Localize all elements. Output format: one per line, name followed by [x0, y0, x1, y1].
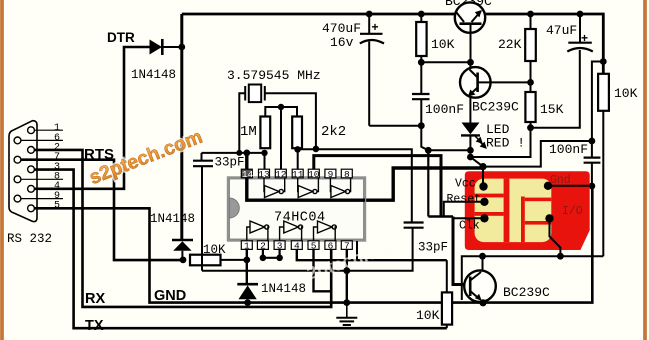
svg-text:14: 14: [242, 169, 254, 180]
DB9 pin 2: [28, 147, 35, 154]
wire: Vc vertical from 150 node: [427, 150, 429, 216]
wire: 2k2 bottom node to clock line y149: [297, 148, 412, 222]
resistor 15K vertical: [525, 92, 535, 122]
wire: IC pin5 jumper to pin6 column: [314, 249, 332, 291]
pin 9 stub: [21, 198, 63, 200]
resistor 10K vertical (Q1 base pullup): [416, 22, 426, 56]
wire: pin7 down to ground: [346, 249, 348, 302]
node dot: 10K bottom: [418, 59, 425, 66]
pin 8 stub: [21, 178, 63, 180]
svg-text:33pF: 33pF: [215, 156, 245, 170]
svg-text:RS 232: RS 232: [7, 232, 52, 246]
wire: rail branch to 100nF right column: [592, 62, 603, 142]
inverter gate 11-10: [298, 178, 319, 198]
svg-text:1N4148: 1N4148: [150, 212, 195, 226]
svg-text:10K: 10K: [416, 308, 440, 323]
node: D3-GND dot: [244, 299, 251, 306]
svg-text:47uF: 47uF: [546, 23, 577, 38]
node dots on card-bottom line: [479, 253, 486, 260]
svg-text:Reset: Reset: [447, 193, 482, 206]
DB9 connector shell: [9, 121, 37, 222]
svg-text:I/O: I/O: [562, 205, 583, 218]
DB9 pin 4: [28, 185, 35, 192]
node dots on y153: [236, 150, 242, 156]
wire: 100nF node down to 150 node: [421, 126, 428, 151]
svg-text:Gnd: Gnd: [550, 174, 571, 187]
wire: diagonal dot2 to dot3: [470, 157, 483, 167]
node: pin1 junction dot: [243, 257, 250, 264]
node: pin7 on y270 dot: [343, 267, 350, 274]
DB9 pin 7: [14, 156, 21, 163]
inverter gate 5-6: [314, 221, 337, 241]
svg-text:DTR: DTR: [107, 30, 135, 45]
capacitor 33pF (left): [201, 153, 203, 160]
resistor 1M vertical: [260, 117, 270, 149]
SIM card body: [465, 171, 590, 250]
svg-text:2k2: 2k2: [321, 124, 346, 140]
svg-text:5: 5: [54, 201, 60, 212]
wire: 10K bottom to Q1 base node: [421, 61, 470, 63]
wire: thick V+ vertical x=182: [180, 14, 183, 240]
IC notch: [229, 198, 239, 218]
wire: Ve thick vertical down to Q3 base: [453, 217, 470, 285]
diode D1 1N4148 (DTR): [150, 40, 163, 55]
wire: Reset contact wire: [444, 202, 485, 217]
svg-text:100nF: 100nF: [425, 102, 464, 117]
wire: crystal right down to 2k2 bottom node: [265, 93, 316, 149]
svg-text:Clk: Clk: [459, 220, 480, 233]
node: pin7 GND dot: [343, 299, 350, 306]
IC U1 74HC04 body: [228, 178, 365, 241]
SIM contact plate: [475, 179, 552, 243]
capacitor 33pF (right): [404, 221, 424, 223]
svg-text:RED !: RED !: [486, 136, 525, 151]
node dot: Q3 emitter on GND: [479, 299, 486, 306]
node dots LED bottom: [467, 147, 474, 154]
wire: ground net y270 to 33pF right cap: [202, 228, 413, 271]
bottom pin boxes 1..7: [241, 240, 352, 251]
resistor 22K vertical: [525, 29, 536, 61]
ground symbol: [346, 303, 348, 318]
top V+ rail: [182, 14, 604, 74]
svg-text:22K: 22K: [498, 37, 522, 52]
wire: 141 node left to Vcc riser: [483, 141, 592, 167]
wire: DB9 pin3 TX down to TX line to 10K bottom: [34, 170, 446, 329]
resistor 2k2 vertical: [292, 117, 302, 149]
wire: y216 jumper: [428, 215, 453, 217]
wire: thick pin14 net from osc node through IC to right: [247, 153, 483, 200]
wire: pin4 to y260 line to 10K top: [297, 249, 447, 260]
LED arrows: [474, 135, 486, 148]
svg-text:1N4148: 1N4148: [131, 68, 176, 82]
wire: pin10 clock line thick to SIM side: [314, 156, 441, 217]
svg-text:GND: GND: [154, 288, 186, 304]
svg-text:8: 8: [344, 169, 350, 180]
inverter gate 9-8: [330, 178, 350, 198]
wire: DB9 pin2 RX down to RX line to IC pin6: [34, 150, 331, 307]
svg-text:3.579545 MHz: 3.579545 MHz: [227, 68, 321, 83]
node dot: 470uF on rail: [366, 11, 373, 18]
DB9 pin 9: [14, 195, 21, 202]
wire: Clk contact wire: [453, 217, 484, 219]
svg-text:10K: 10K: [431, 37, 455, 52]
wire: DB9 pin7 RTS down and right to 10K: [21, 160, 183, 260]
DB9 pin 6: [14, 137, 21, 144]
wire: 470uF minus to 100nF node: [369, 125, 421, 127]
capacitor 100nF (left): [420, 62, 422, 93]
svg-text:Vcc: Vcc: [455, 178, 476, 191]
node: DTR/V+ junction dot: [178, 44, 185, 51]
wire: IC pin1 down through dot to diode D3: [246, 249, 248, 284]
node dot: Gnd contact line: [589, 183, 596, 190]
svg-text:TX: TX: [85, 318, 104, 334]
svg-text:100nF: 100nF: [549, 142, 588, 157]
diode D3 1N4148 (pin1 to GND): [237, 283, 258, 286]
svg-text:6: 6: [328, 240, 334, 251]
svg-text:5: 5: [311, 240, 317, 251]
node dot: 15K bottom: [527, 124, 534, 131]
wire: crystal left to osc node: [239, 93, 245, 153]
pin 1 stub: [34, 129, 63, 131]
resistor 10K horizontal (RTS to pin1): [190, 255, 221, 266]
svg-text:33pF: 33pF: [418, 241, 448, 255]
wire: pin11 up to clock node: [297, 149, 299, 169]
top pin boxes 14,13,12,11,10,9,8: [241, 169, 352, 180]
inverter gate 3-4: [280, 221, 303, 241]
wire: 150 node right to LED node: [428, 149, 470, 151]
watermark s2ptech.com (center, faint white): [295, 234, 406, 287]
wire: Gnd contact wire: [548, 185, 592, 187]
inverter gate 1-2: [247, 221, 269, 241]
LED D4: [462, 123, 480, 135]
wire: DB9 pin4 DTR up to diode D1: [34, 47, 149, 189]
diode D2 1N4148 (on V+ column) cathode bar: [172, 239, 193, 242]
resistor 10K vertical (TX base): [442, 292, 452, 324]
DB9 pin 3: [28, 166, 35, 173]
wire: I/O contact wire: [550, 218, 561, 256]
transistor Q3 BC239C (bottom): [482, 256, 484, 270]
wire: Vcc contact riser: [482, 167, 484, 187]
DB9 pin 8: [14, 176, 21, 183]
svg-text:BC239C: BC239C: [472, 100, 519, 115]
pin number labels 1,6,2,7,3,8,4,9,5: [54, 123, 60, 212]
svg-text:10K: 10K: [614, 86, 638, 101]
wire: DB9 pin5 to GND line: [34, 186, 592, 303]
node dot3: Vcc junction: [479, 163, 486, 170]
wire: card-bottom line: [462, 256, 604, 300]
wire: pins 2-3 jumper: [263, 249, 280, 257]
transistor Q2 BC239C (middle): [460, 67, 491, 98]
wire: 1M bottom to pin13: [264, 153, 266, 170]
svg-text:15K: 15K: [540, 102, 564, 117]
right orange page border: [643, 0, 647, 340]
svg-text:1M: 1M: [240, 124, 257, 140]
svg-text:+: +: [372, 20, 379, 34]
svg-text:RX: RX: [85, 291, 105, 307]
svg-text:10K: 10K: [203, 243, 226, 257]
pin 6 stub: [21, 139, 63, 141]
DB9 pin 1: [28, 127, 35, 134]
left orange page border: [0, 0, 4, 340]
svg-text:BC239C: BC239C: [503, 285, 550, 300]
DB9 pin 5: [28, 205, 35, 212]
svg-text:470uF: 470uF: [322, 21, 361, 36]
resistor 10K vertical (far right): [598, 74, 609, 111]
watermark s2ptech.com (middle-left, orange): [86, 126, 205, 189]
stub at IC bottom right: [356, 241, 358, 260]
svg-text:16v: 16v: [330, 35, 354, 50]
wire: 1M/2k2 tops to pin12: [265, 107, 297, 117]
wire: 15K node right to 47uF bottom: [531, 50, 580, 128]
svg-text:1: 1: [244, 240, 250, 251]
wire: osc line y153: [202, 152, 265, 154]
SIM pad separators: [475, 179, 552, 243]
node: RTS/10K junction dot: [180, 257, 187, 264]
thick pin14 segment inside IC redrawn over body: [247, 178, 365, 201]
inverter gate 13-12: [264, 178, 285, 198]
SIM contact dots: [479, 182, 487, 190]
wire: 15K node left-down to Vcc dot2: [470, 128, 530, 157]
